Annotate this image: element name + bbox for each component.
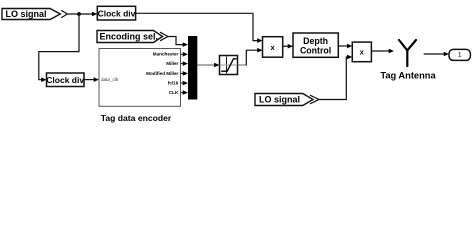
svg-text:Tag Antenna: Tag Antenna xyxy=(380,71,436,81)
block Clock div (top) xyxy=(97,6,135,20)
svg-text:Clock div: Clock div xyxy=(46,75,84,85)
wire product1 to Depth Control xyxy=(283,44,293,49)
svg-text:Miller: Miller xyxy=(166,61,178,66)
block product1 (x) xyxy=(263,37,283,58)
wire encoder fc16 to mux xyxy=(181,81,189,86)
svg-text:Tag data encoder: Tag data encoder xyxy=(101,113,172,123)
tag Encoding sel xyxy=(97,31,168,43)
mux multiport switch (black bar) xyxy=(188,36,197,100)
wire Encoding sel to mux xyxy=(168,37,188,47)
wire LO signal to Clock div1 xyxy=(67,12,98,17)
wire antenna to output port xyxy=(424,52,449,57)
wire saturation output to product1 bottom input xyxy=(238,48,263,66)
svg-text:Manchester: Manchester xyxy=(153,52,179,57)
block Tag data encoder xyxy=(99,49,181,107)
svg-text:LO signal: LO signal xyxy=(259,95,300,105)
svg-text:Depth: Depth xyxy=(303,36,328,46)
output port 1 xyxy=(449,49,470,60)
svg-text:Control: Control xyxy=(300,46,331,56)
wire Depth Control to product2 top input xyxy=(338,44,352,49)
svg-text:Encoding sel.: Encoding sel. xyxy=(100,32,159,42)
svg-text:data_clk: data_clk xyxy=(101,77,119,82)
tag LO signal (top-left input tag) xyxy=(2,9,67,20)
wire branch junction down-left to Clock div2 xyxy=(39,14,79,82)
svg-text:1: 1 xyxy=(458,52,462,59)
wire encoder Miller to mux xyxy=(181,61,189,66)
wire product2 to Tag Antenna xyxy=(371,49,394,54)
svg-text:Clock div: Clock div xyxy=(98,9,136,19)
antenna Tag Antenna (Y symbol) xyxy=(399,40,416,66)
wire Clock div2 to encoder data_clk xyxy=(84,77,99,82)
wire encoder Manchester to mux xyxy=(181,52,189,57)
wire mux output to saturation xyxy=(197,63,219,68)
wire encoder CLK to mux xyxy=(181,90,189,95)
wire encoder Modified Miller to mux xyxy=(181,71,189,76)
tag LO signal (bottom) xyxy=(255,94,319,106)
node junction on LO wire xyxy=(77,12,81,16)
svg-text:Modified Miller: Modified Miller xyxy=(146,71,178,76)
svg-text:fc/16: fc/16 xyxy=(168,81,179,86)
wire Clock div1 output to product1 top input xyxy=(136,13,263,43)
block product2 (x) xyxy=(352,42,371,62)
block Depth Control xyxy=(293,33,338,57)
block Clock div (bottom) xyxy=(46,73,84,87)
wire LO signal2 to product2 bottom input xyxy=(319,55,352,100)
block saturation U1 xyxy=(220,56,238,75)
svg-text:LO signal: LO signal xyxy=(5,9,46,19)
svg-text:CLK: CLK xyxy=(169,90,179,95)
